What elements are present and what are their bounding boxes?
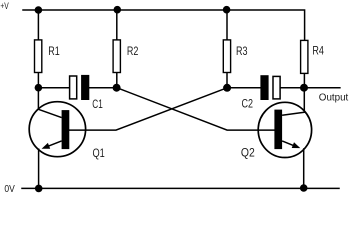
transistor Q2: [241, 102, 312, 159]
wire R4 bottom to node: [303, 73, 305, 87]
wire C2 to output node: [281, 87, 304, 89]
transistor Q1: [29, 102, 105, 160]
node dot top R3: [223, 6, 231, 14]
wire Q2 emitter to 0V rail: [303, 149, 305, 188]
wire R1 top: [37, 10, 39, 40]
node dot C1/R2: [113, 84, 121, 92]
wire 0V rail: [22, 187, 339, 189]
svg-text:R2: R2: [127, 44, 139, 58]
node dot output: [300, 84, 308, 92]
wire R3 top: [226, 10, 228, 40]
svg-text:Q2: Q2: [241, 146, 255, 160]
node dot R3/C2: [223, 84, 231, 92]
wire node down to Q1 collector: [37, 88, 39, 109]
node dot 0V left: [35, 185, 43, 193]
node dot R1/C1: [35, 84, 43, 92]
wire node down to Q2 collector: [303, 88, 305, 113]
capacitor C2: [242, 75, 281, 110]
svg-text:R3: R3: [236, 44, 248, 58]
svg-text:0V: 0V: [4, 184, 15, 195]
wire R1 bottom to node: [37, 73, 39, 88]
svg-text:C1: C1: [92, 97, 103, 111]
svg-text:+V: +V: [0, 1, 8, 11]
wire top rail +V: [23, 10, 305, 40]
wire C1 to node B1: [89, 87, 117, 89]
wire R2 bottom to node: [116, 73, 118, 88]
node dot top R1: [35, 6, 43, 14]
wire cross-couple C1 node to Q2 base: [117, 88, 275, 130]
node dot 0V right: [300, 184, 308, 192]
svg-text:Output: Output: [319, 93, 349, 104]
resistor R2: [113, 40, 120, 73]
node dot top R2: [114, 6, 122, 14]
capacitor C1: [70, 75, 103, 111]
resistor R1: [35, 40, 42, 73]
svg-text:R4: R4: [312, 44, 324, 58]
wire R2 top: [116, 10, 118, 40]
wire output stub: [304, 87, 340, 89]
wire Q1 emitter to 0V rail: [38, 149, 40, 188]
wire R3 bottom to node: [226, 73, 228, 88]
resistor R3: [223, 40, 230, 73]
svg-text:R1: R1: [48, 44, 60, 58]
resistor R4: [301, 40, 308, 73]
wire node to C2: [227, 87, 260, 89]
wire node to C1: [38, 87, 69, 89]
svg-text:Q1: Q1: [93, 146, 106, 160]
wire cross-couple C2 node to Q1 base: [69, 88, 227, 130]
svg-text:C2: C2: [242, 96, 254, 110]
